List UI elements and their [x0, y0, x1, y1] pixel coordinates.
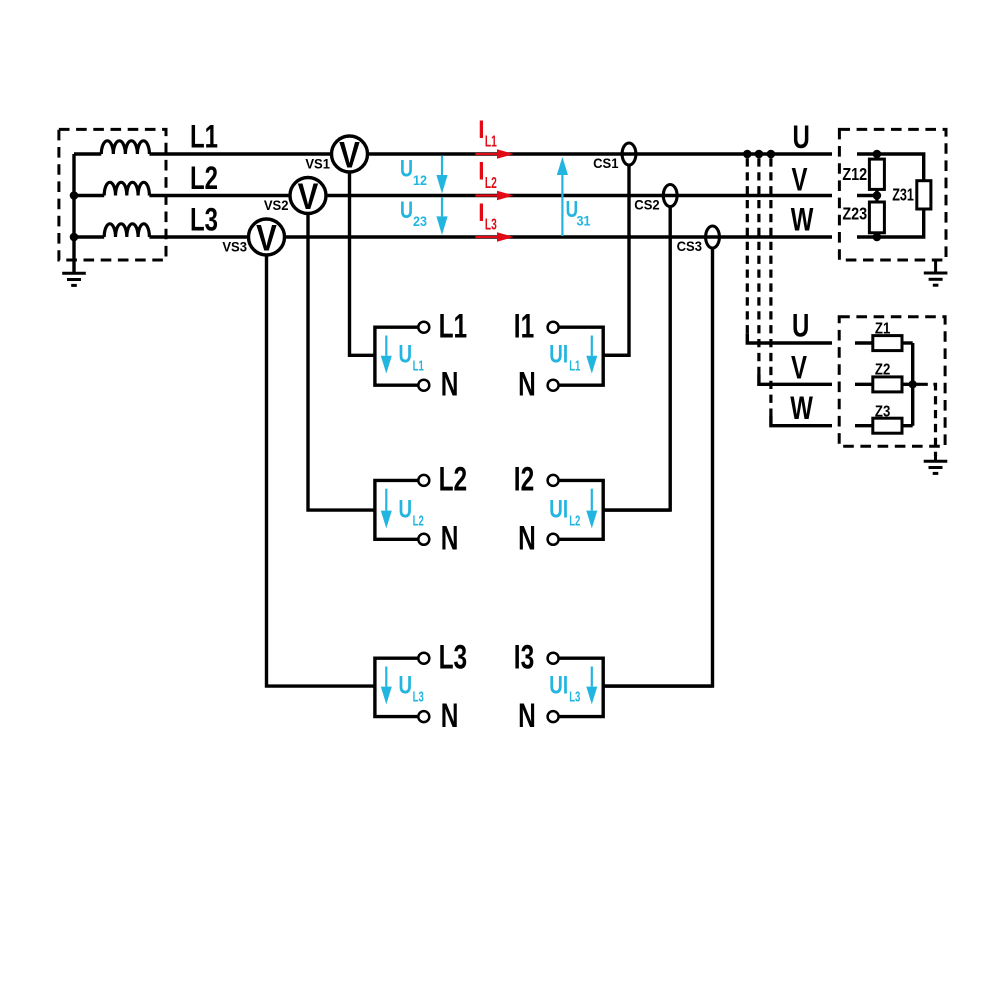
svg-text:V: V: [339, 135, 360, 176]
svg-text:U: U: [793, 118, 810, 154]
wire delta bottom to Z31: [877, 209, 924, 237]
wire current sensor CS2 to current input 2: [603, 206, 670, 511]
wire star to ground (dashed): [913, 384, 936, 461]
label UI_L2: [549, 495, 580, 529]
label U23: [400, 197, 427, 229]
wire current sensor CS3 to current input 3: [603, 247, 712, 686]
svg-text:U: U: [399, 671, 413, 699]
wire W stub into wye: [855, 424, 873, 427]
voltmeter VS1: [332, 135, 368, 176]
wire V stub into wye: [855, 383, 873, 386]
current arrow I_L3: [475, 232, 513, 241]
ground delta load: [924, 273, 948, 285]
wire source bus: [72, 154, 75, 273]
svg-text:L3: L3: [569, 688, 580, 705]
svg-text:Z3: Z3: [875, 403, 890, 420]
wire V stub into delta: [857, 194, 877, 197]
svg-text:N: N: [441, 697, 459, 735]
wire coil lead L1: [74, 152, 101, 155]
label U31: [566, 198, 591, 229]
current sensor CS1: [622, 143, 636, 165]
node delta U: [873, 150, 882, 159]
svg-text:I1: I1: [514, 308, 534, 346]
voltage arrow U_L3: [381, 667, 392, 705]
label UI_L1: [549, 340, 580, 374]
wire Z3 to star point: [902, 424, 913, 427]
wire Z12 top lead: [875, 154, 878, 159]
wire dashed drop 3: [771, 158, 832, 425]
voltage arrow U12: [436, 156, 447, 194]
wire Z23 top lead: [875, 196, 878, 203]
svg-text:V: V: [792, 161, 808, 197]
svg-text:W: W: [790, 389, 813, 425]
wire Z2 to star point: [902, 383, 913, 386]
svg-text:L2: L2: [413, 512, 424, 529]
label I_L3: [478, 199, 497, 233]
current sensor CS3: [706, 226, 720, 248]
svg-text:L3: L3: [439, 639, 468, 677]
label UI_L3: [549, 671, 580, 705]
current arrow UI_L3: [586, 667, 597, 705]
terminal N (current 2): [548, 534, 559, 545]
svg-text:CS1: CS1: [593, 156, 619, 172]
svg-text:12: 12: [413, 172, 427, 188]
svg-text:L1: L1: [485, 132, 497, 150]
svg-text:CS3: CS3: [677, 239, 703, 255]
inductor winding L2: [104, 182, 149, 195]
terminal N (voltage 2): [418, 534, 429, 545]
svg-text:Z12: Z12: [842, 165, 867, 185]
resistor Z31: [917, 181, 931, 209]
current sensor CS2: [663, 185, 677, 207]
svg-text:VS2: VS2: [264, 198, 289, 214]
ground wye load: [924, 461, 948, 473]
svg-text:N: N: [518, 520, 536, 558]
wire W stub into delta: [857, 235, 877, 238]
wire voltmeter VS3 to voltage input 3: [267, 255, 375, 686]
wire Z1 to star point: [902, 341, 913, 344]
terminal L3: [418, 653, 429, 664]
svg-text:I: I: [478, 116, 484, 144]
svg-text:CS2: CS2: [634, 197, 660, 213]
current arrow I_L2: [475, 191, 513, 200]
terminal I2: [548, 475, 559, 486]
svg-text:V: V: [256, 218, 277, 259]
current input bracket I3: [559, 658, 712, 716]
wire dashed drop 2: [759, 158, 832, 384]
resistor Z3: [873, 418, 902, 433]
current arrow I_L1: [475, 149, 513, 158]
wire coil lead L2: [74, 194, 104, 197]
svg-text:U: U: [399, 340, 413, 368]
svg-text:N: N: [441, 520, 459, 558]
node delta W: [873, 233, 882, 242]
wire delta top to Z31: [877, 154, 924, 181]
wire U stub into wye: [855, 341, 873, 344]
svg-text:I3: I3: [514, 639, 534, 677]
terminal L1: [418, 322, 429, 333]
svg-text:I2: I2: [514, 461, 534, 499]
label I_L2: [478, 157, 497, 191]
label I_L1: [478, 116, 497, 150]
current arrow UI_L1: [586, 336, 597, 374]
wire star vertical: [911, 343, 914, 426]
wire delta ground stub: [934, 260, 937, 273]
wire line L1: [149, 152, 832, 155]
svg-text:L1: L1: [569, 358, 580, 375]
svg-text:V: V: [791, 349, 807, 385]
voltage input bracket L3: [375, 658, 418, 716]
svg-text:L2: L2: [439, 461, 468, 499]
svg-text:U: U: [399, 495, 413, 523]
svg-text:VS3: VS3: [222, 239, 247, 255]
wire coil lead L3: [74, 235, 104, 238]
terminal N (current 3): [548, 711, 559, 722]
voltage arrow U23: [436, 197, 447, 235]
svg-text:N: N: [518, 366, 536, 404]
svg-text:L3: L3: [413, 688, 424, 705]
svg-text:Z2: Z2: [875, 362, 890, 379]
svg-text:L1: L1: [413, 358, 424, 375]
terminal N (voltage 1): [418, 380, 429, 391]
svg-text:I: I: [478, 157, 484, 185]
wire U stub into delta: [857, 152, 877, 155]
node voltage tap 3: [767, 150, 776, 159]
terminal I1: [548, 322, 559, 333]
wire dashed drop 1: [747, 158, 832, 343]
resistor Z2: [873, 377, 902, 392]
resistor Z1: [873, 336, 902, 351]
current input bracket I2: [559, 480, 670, 539]
wire voltmeter VS1 to voltage input 1: [350, 172, 375, 355]
svg-text:I: I: [478, 199, 484, 227]
wire voltmeter VS2 to voltage input 2: [308, 214, 375, 511]
node star point: [909, 380, 917, 388]
svg-text:U: U: [792, 307, 809, 343]
current input bracket I1: [559, 327, 629, 385]
inductor winding L1: [101, 141, 149, 154]
svg-text:Z31: Z31: [892, 185, 914, 205]
voltage arrow U_L1: [381, 336, 392, 374]
voltage input bracket L2: [375, 480, 418, 539]
voltmeter VS2: [290, 177, 326, 218]
node bus-L2 junction: [70, 191, 79, 200]
node bus-L3 junction: [70, 233, 79, 242]
current arrow UI_L2: [586, 489, 597, 529]
label U12: [400, 156, 427, 188]
svg-text:UI: UI: [549, 340, 568, 368]
svg-text:L2: L2: [569, 512, 580, 529]
node delta V: [873, 191, 882, 200]
svg-text:L1: L1: [439, 308, 468, 346]
svg-text:VS1: VS1: [305, 156, 330, 172]
source box (dashed): [59, 129, 166, 260]
svg-text:N: N: [441, 366, 459, 404]
delta load box (dashed): [839, 129, 946, 260]
svg-text:23: 23: [413, 214, 427, 230]
label U_L3: [399, 671, 424, 705]
svg-text:N: N: [518, 697, 536, 735]
label U_L1: [399, 340, 424, 374]
voltmeter VS3: [249, 218, 285, 259]
voltage arrow U31: [557, 157, 568, 236]
wye load box (dashed): [839, 317, 945, 447]
resistor Z23: [869, 202, 884, 233]
svg-text:31: 31: [577, 213, 592, 229]
svg-text:V: V: [298, 177, 319, 218]
wire line L3: [149, 235, 832, 238]
svg-text:L1: L1: [190, 118, 218, 154]
svg-text:W: W: [791, 201, 814, 237]
svg-text:U: U: [400, 197, 413, 223]
svg-text:Z23: Z23: [842, 204, 867, 224]
terminal N (current 1): [548, 380, 559, 391]
wire Z23 bottom lead: [875, 233, 878, 237]
svg-text:Z1: Z1: [875, 321, 890, 338]
label U_L2: [399, 495, 424, 529]
wire line L2: [149, 194, 832, 197]
svg-text:L2: L2: [190, 159, 218, 195]
resistor Z12: [869, 159, 884, 189]
ground source: [62, 273, 86, 285]
voltage arrow U_L2: [381, 489, 392, 529]
svg-text:UI: UI: [549, 671, 568, 699]
svg-text:L3: L3: [190, 201, 218, 237]
svg-text:L3: L3: [485, 215, 497, 233]
terminal L2: [418, 475, 429, 486]
terminal N (voltage 3): [418, 711, 429, 722]
voltage input bracket L1: [375, 327, 418, 385]
svg-text:U: U: [400, 156, 413, 182]
inductor winding L3: [104, 224, 149, 237]
wire Z12 bottom lead: [875, 189, 878, 195]
svg-text:L2: L2: [485, 174, 497, 192]
svg-text:UI: UI: [549, 495, 568, 523]
node voltage tap 2: [755, 150, 764, 159]
terminal I3: [548, 653, 559, 664]
wire current sensor CS1 to current input 1: [603, 164, 629, 355]
node voltage tap 1: [743, 150, 752, 159]
